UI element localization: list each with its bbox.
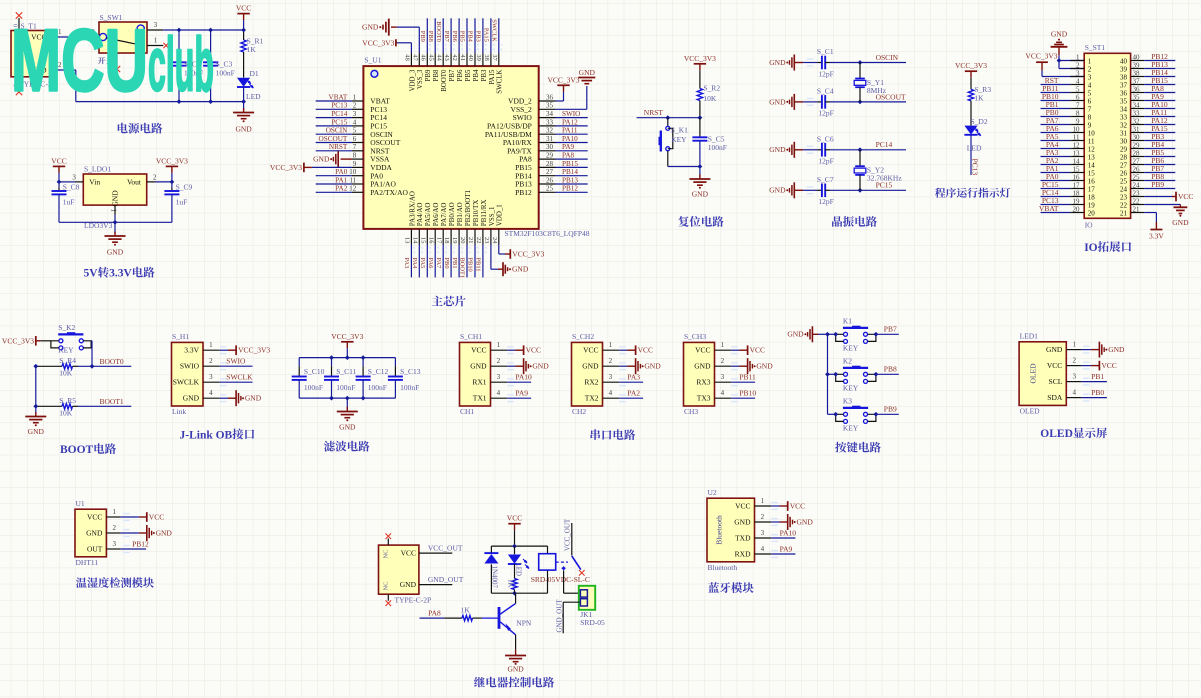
svg-text:KEY: KEY [58, 345, 74, 354]
svg-text:S_R3: S_R3 [974, 85, 991, 94]
ch1 connector S_CH1 [460, 332, 550, 416]
svg-text:PB7: PB7 [1151, 164, 1164, 173]
MCU pin 2 PC13 [316, 102, 388, 114]
svg-text:BOOT1: BOOT1 [100, 397, 124, 406]
MCU pin 42 PB6 [451, 18, 464, 81]
svg-text:39: 39 [1133, 62, 1141, 70]
svg-text:27: 27 [546, 168, 554, 176]
svg-text:29: 29 [546, 152, 554, 160]
MCU pin 35 VSS_2 [511, 68, 596, 114]
svg-text:GND_OUT: GND_OUT [428, 575, 464, 584]
svg-text:PA9: PA9 [780, 544, 793, 553]
svg-text:9: 9 [1076, 118, 1080, 126]
svg-text:IO: IO [1085, 221, 1093, 230]
svg-text:GND: GND [1051, 30, 1068, 39]
svg-text:3: 3 [353, 110, 357, 118]
svg-text:16: 16 [427, 237, 434, 243]
svg-text:2: 2 [1072, 356, 1076, 364]
wire T1.1 to SW1.2 [58, 36, 91, 38]
net GND_OUT [563, 601, 579, 603]
svg-text:VCC_3V3: VCC_3V3 [331, 332, 363, 341]
svg-text:11: 11 [1088, 138, 1095, 146]
svg-text:PB6: PB6 [1151, 156, 1164, 165]
svg-text:PB8: PB8 [1151, 172, 1164, 181]
svg-text:PA15: PA15 [1151, 124, 1168, 133]
svg-text:PB13: PB13 [562, 176, 578, 184]
svg-text:PA9: PA9 [562, 143, 575, 151]
title 电源电路 [118, 123, 163, 134]
wire VCC rail top [163, 29, 243, 31]
svg-text:LED: LED [515, 563, 523, 577]
svg-text:10: 10 [1088, 130, 1096, 138]
svg-text:37: 37 [491, 54, 498, 61]
svg-text:3: 3 [209, 373, 213, 381]
MCU pin 28 PB15 [515, 160, 588, 172]
svg-text:GND: GND [400, 580, 417, 589]
svg-text:33: 33 [1120, 114, 1128, 122]
pushbutton S_K1 KEY reset [659, 118, 689, 167]
svg-text:10: 10 [1073, 126, 1081, 134]
svg-text:PB9: PB9 [425, 69, 432, 81]
svg-text:46: 46 [419, 54, 426, 60]
svg-text:19: 19 [1088, 202, 1096, 210]
ground GND power [243, 102, 245, 110]
wire reset bottom [668, 166, 700, 168]
svg-text:PA0: PA0 [335, 168, 348, 176]
svg-text:GND: GND [692, 190, 709, 199]
MCU pin 12 PA2/TX/AO [316, 185, 409, 197]
MCU pin 46 PB9 [419, 18, 432, 81]
svg-text:DHT11: DHT11 [76, 558, 99, 567]
svg-text:VCC: VCC [750, 346, 765, 355]
svg-text:18: 18 [1088, 194, 1096, 202]
svg-text:PA2: PA2 [335, 185, 348, 193]
svg-text:11: 11 [349, 176, 356, 184]
svg-text:SRD-05: SRD-05 [580, 618, 605, 627]
net BOOT1 [78, 405, 131, 407]
svg-text:42: 42 [451, 54, 458, 60]
net wire PC14 [860, 149, 906, 151]
svg-text:K1: K1 [843, 316, 852, 325]
power flag VCC io pin23 [1144, 196, 1172, 198]
MCU pin 29 PA8 [519, 152, 588, 164]
svg-text:39: 39 [475, 54, 482, 60]
svg-text:40: 40 [1120, 58, 1128, 66]
svg-text:KEY: KEY [843, 384, 859, 393]
wire LDO vin [59, 181, 75, 183]
svg-text:PA5: PA5 [419, 258, 426, 269]
net wire OSCOUT [860, 101, 906, 103]
svg-text:NRST: NRST [644, 108, 664, 117]
svg-text:BOOT0: BOOT0 [441, 69, 448, 92]
svg-text:GND: GND [1172, 218, 1189, 227]
svg-text:VCC: VCC [149, 512, 164, 521]
svg-text:1uF: 1uF [63, 197, 75, 206]
svg-text:PA8: PA8 [1151, 84, 1164, 93]
svg-text:GND: GND [769, 145, 786, 154]
MCU pin 45 PB8 [427, 18, 440, 81]
svg-text:28: 28 [546, 160, 554, 168]
svg-text:3: 3 [113, 540, 117, 548]
svg-text:GND: GND [235, 125, 252, 134]
io pin 25 PB8 [1120, 172, 1175, 186]
io pin 7 PB1 [1041, 100, 1092, 114]
MCU pin 3 PC14 [316, 110, 388, 122]
ground GND io-top [1051, 30, 1068, 61]
svg-text:OSCOUT: OSCOUT [319, 135, 348, 143]
wire LDO gnd rail [59, 221, 172, 223]
svg-text:PA12: PA12 [562, 118, 578, 126]
svg-text:2: 2 [497, 357, 501, 365]
svg-text:PB8: PB8 [884, 365, 897, 374]
io pin 23 [1120, 190, 1144, 202]
svg-text:NC: NC [383, 582, 390, 591]
MCU pin 48 VDD_3 [362, 38, 416, 91]
svg-text:32.768KHz: 32.768KHz [867, 174, 902, 183]
svg-text:13: 13 [1073, 150, 1081, 158]
svg-text:VCC_OUT: VCC_OUT [428, 544, 463, 553]
svg-text:23: 23 [1120, 194, 1128, 202]
svg-text:VCC: VCC [471, 346, 486, 355]
svg-text:VCC: VCC [87, 513, 102, 522]
resistor 1K relay [506, 564, 517, 593]
svg-text:24: 24 [491, 237, 498, 244]
MCU pin 20 PB2/BOOT1 [459, 190, 472, 279]
svg-text:4: 4 [721, 389, 725, 397]
MCU pin 10 PA0 [316, 168, 383, 180]
svg-text:Bluetooth: Bluetooth [715, 515, 724, 545]
svg-text:12: 12 [349, 185, 357, 193]
svg-text:S_LDO1: S_LDO1 [84, 165, 111, 174]
svg-text:100nF: 100nF [304, 383, 323, 392]
svg-text:VCC_3V3: VCC_3V3 [156, 156, 188, 165]
power flag 3.3V io pin21 [1144, 212, 1156, 214]
svg-text:VCC: VCC [790, 501, 805, 510]
svg-text:4: 4 [1076, 78, 1080, 86]
ground GND keys [811, 326, 813, 342]
MCU pin 16 PA6/AO [427, 203, 440, 278]
svg-text:33: 33 [1133, 110, 1141, 118]
svg-text:PB8: PB8 [433, 69, 440, 81]
svg-text:S_K1: S_K1 [671, 126, 688, 135]
svg-text:2: 2 [113, 524, 117, 532]
crystal S_Y2 32.768KHz [854, 150, 902, 191]
svg-text:J-Link OB: J-Link OB [180, 429, 233, 441]
svg-text:100nF: 100nF [336, 383, 355, 392]
svg-text:12pF: 12pF [818, 197, 833, 206]
svg-text:22: 22 [1133, 198, 1141, 206]
svg-text:VCC_3V3: VCC_3V3 [2, 337, 34, 346]
resistor S_R5 10K [36, 396, 78, 418]
MCU pin 14 PA4/AO [411, 203, 424, 278]
svg-text:39: 39 [1120, 66, 1128, 74]
svg-text:PB6: PB6 [457, 69, 464, 81]
junctions power rails [177, 28, 182, 33]
svg-text:47: 47 [411, 54, 418, 61]
MCU U1 STM32F103C8T6_LQFP48 [363, 56, 589, 239]
MCU pin 26 PB13 [515, 176, 588, 188]
io pin 33 PA11 [1120, 108, 1175, 122]
svg-text:PA7: PA7 [435, 258, 442, 270]
MCU pin 27 PB14 [515, 168, 588, 180]
svg-text:36: 36 [1133, 86, 1141, 94]
io pin 32 PA12 [1120, 116, 1175, 130]
svg-text:GND: GND [1046, 345, 1063, 354]
svg-text:PB2/BOOT1: PB2/BOOT1 [465, 190, 472, 227]
svg-text:6: 6 [1088, 98, 1092, 106]
svg-text:S_C7: S_C7 [817, 175, 834, 184]
svg-text:S_C1: S_C1 [817, 47, 834, 56]
svg-text:PB10: PB10 [467, 258, 474, 272]
svg-text:PA8: PA8 [562, 152, 575, 160]
svg-text:12pF: 12pF [818, 109, 833, 118]
svg-text:PC15: PC15 [331, 118, 347, 126]
svg-text:1: 1 [113, 508, 117, 516]
svg-text:S_H1: S_H1 [172, 332, 189, 341]
svg-text:9: 9 [1088, 122, 1092, 130]
svg-text:12: 12 [1088, 146, 1096, 154]
io pin 20 VBAT [1039, 204, 1095, 218]
svg-text:3: 3 [1072, 372, 1076, 380]
svg-text:PB6: PB6 [451, 31, 458, 42]
svg-text:BOOT: BOOT [60, 444, 94, 456]
io pin 4 RST [1041, 76, 1092, 90]
capacitor S_C3 100nF [203, 30, 235, 102]
io pin 28 PB5 [1120, 148, 1175, 162]
svg-text:S_CH3: S_CH3 [684, 332, 706, 341]
MCU pin 30 PA9/TX [507, 143, 588, 155]
io pin 9 PA7 [1041, 116, 1092, 130]
svg-text:GND: GND [1108, 345, 1125, 354]
io pin 17 PC15 [1041, 180, 1096, 194]
svg-text:GND: GND [156, 528, 173, 537]
io pin 22 [1120, 198, 1144, 210]
svg-text:24: 24 [1133, 182, 1141, 190]
svg-text:SWCLK: SWCLK [226, 373, 253, 382]
io wires pins 1-2 gnd [1059, 60, 1084, 62]
svg-text:4: 4 [761, 545, 765, 553]
svg-text:VCC: VCC [638, 346, 653, 355]
capacitor S_C1 12pF row OSCIN [769, 47, 860, 78]
svg-text:4: 4 [1088, 82, 1092, 90]
svg-text:25: 25 [546, 185, 554, 193]
svg-text:S_C5: S_C5 [708, 134, 725, 143]
svg-text:KEY: KEY [671, 135, 687, 144]
svg-text:4: 4 [209, 389, 213, 397]
svg-text:GND: GND [512, 265, 529, 274]
svg-text:GND_OUT: GND_OUT [555, 599, 563, 633]
svg-text:MCUclub: MCUclub [11, 11, 214, 110]
svg-text:VCC: VCC [1101, 361, 1116, 370]
svg-text:34: 34 [1133, 102, 1141, 110]
io pin 36 PA8 [1120, 84, 1175, 98]
svg-text:7: 7 [1088, 106, 1092, 114]
MCU pin 11 PA1/AO [316, 176, 397, 188]
svg-text:S_R2: S_R2 [703, 84, 720, 93]
svg-text:1: 1 [721, 341, 725, 349]
svg-text:SDA: SDA [1047, 393, 1063, 402]
svg-text:3.3V: 3.3V [109, 268, 132, 280]
dht connector U1 [75, 499, 172, 567]
svg-text:S_K2: S_K2 [58, 323, 75, 332]
svg-text:PB8: PB8 [427, 31, 434, 42]
svg-text:VCC_OUT: VCC_OUT [564, 518, 572, 551]
svg-text:PB10: PB10 [739, 389, 756, 398]
oled connector LED1 [1019, 332, 1125, 416]
svg-text:PC13: PC13 [331, 102, 347, 110]
svg-text:2: 2 [609, 357, 613, 365]
svg-text:3: 3 [1088, 74, 1092, 82]
svg-text:38: 38 [1133, 70, 1141, 78]
svg-text:OUT: OUT [87, 545, 103, 554]
svg-text:CH1: CH1 [460, 407, 474, 416]
svg-text:26: 26 [546, 176, 554, 184]
svg-text:VCC: VCC [51, 156, 66, 165]
svg-text:PB3: PB3 [481, 69, 488, 81]
svg-text:PA3: PA3 [403, 258, 410, 269]
svg-text:PB7: PB7 [449, 69, 456, 81]
svg-text:19: 19 [451, 237, 458, 243]
svg-text:37: 37 [1133, 78, 1141, 86]
svg-text:CH2: CH2 [572, 407, 586, 416]
svg-text:100nF: 100nF [368, 383, 387, 392]
svg-text:1: 1 [497, 341, 501, 349]
transistor NPN Q1 [482, 593, 532, 649]
svg-text:VCC: VCC [695, 346, 710, 355]
svg-text:4: 4 [497, 389, 501, 397]
wire boot bus [35, 366, 37, 414]
svg-text:14: 14 [1088, 162, 1096, 170]
svg-text:GND: GND [183, 394, 200, 403]
svg-text:10K: 10K [59, 369, 73, 378]
svg-text:SRD-05VDC-SL-C: SRD-05VDC-SL-C [531, 575, 590, 584]
diode 1N4007 [484, 553, 498, 588]
svg-text:8MHz: 8MHz [867, 86, 887, 95]
svg-text:Vin: Vin [89, 177, 100, 186]
MCU pin 37 SWCLK [491, 18, 504, 93]
svg-text:OLED: OLED [1040, 428, 1073, 440]
resistor 1K base [420, 606, 482, 621]
title 继电器控制电路 [474, 677, 554, 688]
svg-text:PA1: PA1 [335, 176, 348, 184]
svg-text:GND: GND [470, 362, 487, 371]
svg-text:17: 17 [1088, 186, 1096, 194]
svg-text:OSCIN: OSCIN [326, 127, 348, 135]
io pin 24 PB9 [1120, 180, 1175, 194]
svg-text:20: 20 [1088, 210, 1096, 218]
capacitor S_C9 1uF [164, 182, 192, 222]
MCU pin 47 VSS_3 [362, 19, 424, 90]
svg-text:28: 28 [1133, 150, 1141, 158]
io pin 12 PA4 [1041, 140, 1096, 154]
svg-text:S_R5: S_R5 [59, 396, 76, 405]
svg-text:10: 10 [349, 168, 357, 176]
svg-text:GND: GND [362, 23, 379, 32]
svg-text:PB0/AO: PB0/AO [449, 202, 456, 226]
io pin 34 PA10 [1120, 100, 1175, 114]
svg-text:36: 36 [546, 93, 554, 101]
svg-text:PA15: PA15 [483, 28, 490, 42]
capacitor S_C8 1uF [52, 182, 80, 222]
power flag VCC_3V3 io pin3 [1025, 51, 1084, 76]
jlink connector S_H1 [172, 332, 271, 416]
svg-text:16: 16 [1073, 174, 1081, 182]
title 滤波电路 [324, 441, 370, 452]
svg-text:TX3: TX3 [697, 394, 711, 403]
svg-text:24: 24 [1120, 186, 1128, 194]
svg-text:KEY: KEY [843, 424, 859, 433]
svg-text:PB4: PB4 [473, 69, 480, 81]
svg-text:12: 12 [1073, 142, 1081, 150]
svg-text:22: 22 [1120, 202, 1128, 210]
svg-text:PB7: PB7 [884, 325, 897, 334]
io pin 3 [1070, 70, 1091, 82]
svg-text:PB0: PB0 [443, 258, 450, 269]
svg-text:1uF: 1uF [176, 197, 188, 206]
svg-text:RXD: RXD [735, 550, 751, 559]
svg-text:48: 48 [404, 54, 411, 60]
svg-text:GND: GND [582, 362, 599, 371]
svg-text:30: 30 [1120, 138, 1128, 146]
svg-text:33: 33 [546, 118, 554, 126]
svg-text:PB9: PB9 [1151, 180, 1164, 189]
svg-text:PC14: PC14 [876, 140, 893, 149]
filter top rail [299, 357, 395, 359]
title 串口电路 [591, 429, 636, 440]
svg-text:PB12: PB12 [1151, 52, 1168, 61]
MCU pin 7 NRST [316, 143, 390, 155]
svg-text:40: 40 [467, 54, 474, 60]
ground GND filter [346, 398, 348, 409]
io pin 13 PA3 [1041, 148, 1096, 162]
MCU pin 33 PA12/USB/DP [487, 118, 588, 130]
svg-text:NPN: NPN [516, 619, 532, 628]
svg-text:41: 41 [459, 54, 466, 60]
svg-text:2: 2 [209, 357, 213, 365]
svg-text:Bluetooth: Bluetooth [708, 563, 738, 572]
io pin 6 PB10 [1041, 92, 1092, 106]
svg-text:29: 29 [1120, 146, 1128, 154]
capacitor S_C5 100nF [692, 118, 727, 167]
svg-text:PB3: PB3 [475, 31, 482, 42]
svg-text:2: 2 [721, 357, 725, 365]
svg-text:GND: GND [107, 248, 124, 257]
crystal S_Y1 8MHz [854, 63, 887, 102]
svg-text:14: 14 [411, 237, 418, 244]
svg-text:S_C3: S_C3 [216, 60, 233, 69]
svg-text:VSS_3: VSS_3 [417, 69, 424, 89]
svg-text:S_C13: S_C13 [400, 367, 421, 376]
svg-text:5V: 5V [84, 268, 99, 280]
pushbutton K1 KEY PB7 [828, 333, 836, 335]
svg-text:VBAT: VBAT [329, 93, 348, 101]
svg-text:S_R4: S_R4 [59, 356, 76, 365]
svg-text:GND: GND [313, 155, 330, 164]
svg-text:PA3: PA3 [627, 373, 640, 382]
svg-text:1: 1 [761, 497, 765, 505]
svg-text:PA7/AO: PA7/AO [441, 203, 448, 227]
pushbutton K2 KEY PB8 [828, 373, 836, 375]
svg-text:PA9: PA9 [1151, 92, 1164, 101]
MCU pin 1 VBAT [316, 93, 391, 105]
svg-text:20: 20 [1073, 206, 1081, 214]
wire relay to JK1 [563, 571, 565, 594]
connector JK1 SRD-05 [579, 586, 605, 627]
svg-text:30: 30 [1133, 134, 1141, 142]
svg-text:LED: LED [246, 92, 261, 101]
svg-text:4: 4 [353, 118, 357, 126]
svg-text:SWCLK: SWCLK [173, 378, 200, 387]
